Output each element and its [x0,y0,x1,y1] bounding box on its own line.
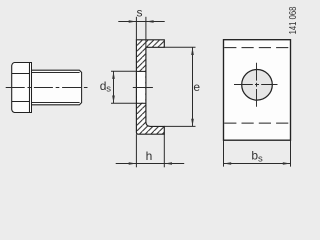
svg-text:s: s [258,154,263,165]
svg-text:s: s [106,84,111,95]
dimension h arrow left [129,162,137,165]
dimension ds arrow up [112,71,115,79]
hidden edge dashed top [224,47,290,49]
bolt centerline [6,87,90,89]
dimension bs extension right [290,140,292,166]
dimension h arrow right [164,162,172,165]
circle centerline vertical [256,63,258,107]
dimension ds extension top [111,70,136,72]
dimension bs arrow left [224,162,232,165]
dimension s extension left [135,17,137,40]
profile hole ds (unhatched) [137,72,145,103]
dimension ds extension bottom [111,102,136,104]
svg-text:h: h [146,149,153,163]
dimension h extension left [135,134,137,167]
profile outline [136,40,164,134]
hidden edge dashed bottom [224,122,290,124]
dimension h line [116,163,185,165]
svg-text:141 068: 141 068 [288,6,299,34]
svg-text:s: s [137,6,143,20]
hole circle [242,70,273,101]
bolt head [12,63,30,113]
bolt washer face [30,63,32,113]
hole top edge [136,70,146,72]
dimension s arrow left [129,20,137,23]
dimension bs arrow right [283,162,291,165]
dimension s extension right [145,17,147,48]
dimension bs extension left [223,140,225,166]
plan view rectangle [224,40,291,141]
dimension e arrow up [191,47,194,55]
circle centerline horizontal [234,84,278,86]
bolt shank [32,70,82,105]
profile hatching [130,34,170,140]
dimension e extension bottom [164,125,195,127]
svg-text:e: e [193,80,200,94]
profile section body [136,40,164,134]
bolt thread line top [32,72,80,74]
bolt head facet line top [12,73,30,75]
dimension e extension top [164,46,195,48]
dimension s line [118,21,164,23]
dimension e arrow down [191,119,194,127]
dimension s arrow right [146,20,154,23]
dimension ds line [113,71,115,103]
dimension ds arrow down [112,96,115,104]
hole centerline [133,87,153,89]
dimension bs line [224,163,291,165]
bolt head facet line bottom [12,101,30,103]
hole bottom edge [136,102,146,104]
dimension e line [192,47,194,126]
dimension h extension right [163,134,165,167]
bolt thread line bottom [32,102,80,104]
